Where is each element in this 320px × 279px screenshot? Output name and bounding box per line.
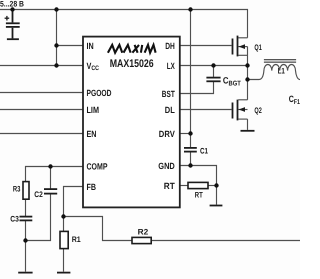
svg-text:PGOOD: PGOOD bbox=[87, 88, 112, 98]
svg-text:C1: C1 bbox=[200, 146, 208, 155]
svg-text:LIM: LIM bbox=[87, 105, 100, 115]
svg-text:Q1: Q1 bbox=[254, 43, 262, 52]
svg-text:LX: LX bbox=[167, 61, 175, 71]
svg-text:C3: C3 bbox=[10, 215, 19, 224]
svg-text:IN: IN bbox=[87, 41, 94, 51]
svg-text:DRV: DRV bbox=[159, 129, 175, 139]
svg-text:RT: RT bbox=[164, 181, 175, 191]
svg-text:5...28 В: 5...28 В bbox=[0, 0, 24, 8]
svg-text:R2: R2 bbox=[138, 228, 149, 237]
svg-text:MAX15026: MAX15026 bbox=[110, 58, 154, 70]
svg-text:R3: R3 bbox=[13, 185, 21, 194]
svg-text:L1: L1 bbox=[278, 67, 286, 76]
svg-text:EN: EN bbox=[87, 129, 97, 139]
svg-text:FB: FB bbox=[87, 182, 97, 192]
svg-text:Q2: Q2 bbox=[254, 106, 262, 115]
svg-text:DL: DL bbox=[165, 105, 175, 115]
svg-text:COMP: COMP bbox=[87, 162, 108, 172]
svg-text:C2: C2 bbox=[34, 190, 43, 199]
svg-text:DH: DH bbox=[165, 41, 175, 51]
svg-text:R1: R1 bbox=[72, 235, 81, 244]
svg-text:RT: RT bbox=[195, 191, 203, 200]
svg-text:BST: BST bbox=[162, 89, 175, 99]
svg-text:GND: GND bbox=[158, 161, 175, 171]
